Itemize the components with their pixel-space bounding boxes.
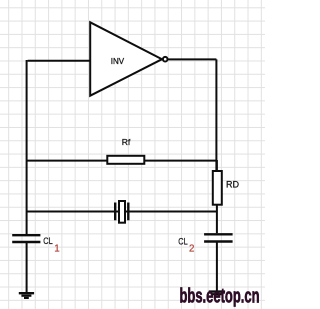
crystal Y1 left plate [114, 203, 116, 221]
wire crystal horizontal net [27, 211, 217, 213]
wire Rf feedback horizontal [27, 160, 217, 162]
wire RD bottom to CL2 [216, 205, 218, 234]
resistor Rf body [107, 156, 144, 164]
ground left bar1 [19, 292, 34, 294]
crystal Y1 right plate [127, 203, 129, 221]
svg-text:1: 1 [54, 244, 59, 255]
svg-text:INV: INV [111, 57, 125, 66]
ground left bar2 [21, 295, 31, 297]
svg-text:Rf: Rf [122, 137, 131, 147]
svg-text:CL: CL [178, 237, 187, 247]
svg-text:CL: CL [43, 236, 52, 246]
node output bubble [163, 57, 168, 62]
wire output from bubble [168, 58, 217, 60]
capacitor CL1 top plate [12, 234, 40, 236]
crystal Y1 body [119, 201, 125, 223]
capacitor CL2 top plate [204, 233, 233, 235]
ground right bar2 [211, 293, 221, 295]
wire left vertical rail [26, 60, 28, 234]
capacitor CL2 bottom plate [204, 240, 233, 242]
svg-text:bbs.eetop.cn: bbs.eetop.cn [180, 286, 260, 308]
svg-text:2: 2 [189, 243, 194, 254]
capacitor CL1 bottom plate [12, 241, 40, 243]
wire CL2 to ground [216, 243, 218, 291]
wire RD top stub [216, 160, 218, 171]
resistor RD body [213, 171, 222, 205]
wire right vertical from output to RD [215, 59, 217, 170]
svg-text:RD: RD [226, 180, 239, 190]
ground right bar3 [214, 295, 219, 297]
ground left bar3 [24, 297, 29, 299]
wire CL1 to ground [26, 243, 28, 292]
ground right bar1 [209, 290, 225, 292]
op-amp U1 inverter INV triangle [90, 22, 162, 95]
wire input horizontal to inverter [28, 60, 90, 62]
